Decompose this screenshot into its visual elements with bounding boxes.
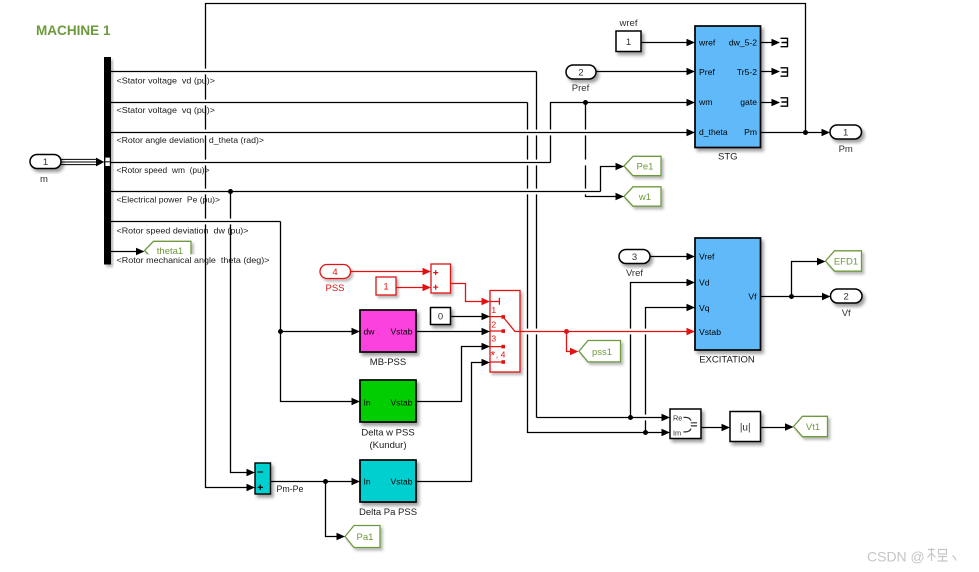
arrow switch ctrl in	[482, 298, 491, 305]
svg-text:<Rotor speed deviation dw (pu: <Rotor speed deviation dw (pu)>	[117, 225, 249, 235]
svg-text:|u|: |u|	[740, 423, 751, 434]
wire m bus	[61, 159, 97, 164]
svg-text:(Kundur): (Kundur)	[370, 440, 407, 451]
svg-text:2: 2	[578, 68, 583, 79]
constant 1 (red)	[376, 277, 396, 295]
svg-text:Pm: Pm	[744, 127, 757, 137]
svg-text:Pe1: Pe1	[637, 162, 654, 173]
wire dw branch to MB-PSS	[281, 331, 354, 333]
svg-text:3: 3	[491, 333, 496, 343]
svg-text:Vstab: Vstab	[391, 326, 413, 336]
arrow d_theta in	[687, 129, 696, 136]
goto tag theta1	[145, 241, 192, 259]
svg-text:4: 4	[332, 267, 337, 278]
wire switch out to Vstab	[520, 331, 689, 333]
arrow Vq in	[687, 304, 696, 311]
svg-text:0: 0	[438, 312, 443, 323]
wire vq branch to Vq	[646, 308, 689, 433]
wire crossover gaps	[204, 69, 646, 421]
svg-text:<Electrical power Pe (pu)>: <Electrical power Pe (pu)>	[117, 194, 221, 204]
wire theta row	[111, 251, 139, 253]
arrow Re in	[662, 414, 671, 421]
wire abs to Vt1	[761, 427, 787, 429]
wire MB-PSS out	[416, 331, 483, 333]
wire Pe drop to sum	[231, 192, 249, 473]
svg-text:<Stator voltage vq (pu)>: <Stator voltage vq (pu)>	[117, 105, 216, 115]
svg-text:d_theta: d_theta	[699, 127, 728, 137]
inport 1 m	[30, 155, 61, 186]
wire ReIm to abs	[701, 427, 723, 429]
wire vd branch to Vd	[631, 283, 689, 418]
wire branch to pss1	[567, 332, 574, 352]
svg-text:Vf: Vf	[842, 308, 851, 319]
wire Pm feedback loop	[206, 4, 806, 488]
svg-text:Pm-Pe: Pm-Pe	[277, 484, 304, 494]
arrow Delta w in	[352, 398, 361, 405]
svg-text:1: 1	[383, 282, 388, 293]
bus label dw	[115, 225, 249, 236]
wire red const to red sum	[396, 287, 426, 289]
svg-text:dw_5-2: dw_5-2	[729, 38, 757, 48]
svg-text:EFD1: EFD1	[834, 257, 858, 268]
svg-text:Vd: Vd	[699, 277, 710, 287]
outport 1 Pm	[830, 125, 862, 155]
svg-text:Vt1: Vt1	[806, 422, 820, 433]
svg-text:1: 1	[843, 128, 848, 139]
node dw branch	[278, 329, 283, 334]
arrowheads black	[96, 39, 831, 540]
wire wm row	[111, 162, 551, 164]
block Delta w PSS	[360, 380, 416, 451]
svg-text:<Rotor speed wm (pu)>: <Rotor speed wm (pu)>	[117, 165, 210, 175]
svg-text:, 4: , 4	[496, 349, 506, 359]
svg-text:Pm: Pm	[839, 144, 853, 155]
arrow Pref in	[687, 68, 696, 75]
svg-text:Vstab: Vstab	[391, 476, 413, 486]
constant 0	[431, 308, 451, 325]
arrow MB-PSS in	[352, 328, 361, 335]
arrow theta1 in	[136, 248, 145, 255]
bus selector bar	[104, 57, 111, 265]
svg-text:EXCITATION: EXCITATION	[699, 355, 755, 366]
goto tag Pa1	[345, 526, 380, 548]
arrow terminator1	[772, 39, 781, 46]
svg-text:wm: wm	[698, 97, 712, 107]
svg-text:In: In	[364, 397, 371, 407]
arrow red sum in1	[423, 268, 432, 275]
svg-text:Vref: Vref	[699, 252, 715, 262]
svg-text:Vref: Vref	[626, 268, 643, 279]
arrow Vd in	[687, 279, 696, 286]
node vq branch	[643, 430, 648, 435]
arrow switch p1	[482, 313, 491, 320]
goto tag w1	[624, 187, 661, 206]
svg-text:2: 2	[844, 292, 849, 303]
arrow switch p2	[482, 328, 491, 335]
svg-text:<Rotor mechanical angle theta: <Rotor mechanical angle theta (deg)>	[117, 255, 270, 265]
arrow Vf port	[822, 293, 831, 300]
svg-text:Delta Pa PSS: Delta Pa PSS	[359, 507, 417, 518]
goto tag Pe1	[624, 156, 661, 175]
block abs |u|	[730, 412, 761, 442]
wire Pref to STG	[596, 71, 689, 73]
wire vq drop and Im run	[528, 103, 664, 433]
wire d_theta row	[111, 132, 689, 134]
svg-text:Tr5-2: Tr5-2	[737, 67, 757, 77]
svg-text:Pref: Pref	[572, 83, 590, 94]
svg-text:1: 1	[43, 157, 48, 168]
inport 4 PSS (red)	[320, 265, 351, 295]
terminator T3	[781, 97, 788, 107]
svg-text:Im: Im	[673, 428, 681, 437]
svg-text:CSDN @: CSDN @	[867, 549, 925, 565]
wire Vf branch to EFD1	[792, 262, 819, 297]
inport 2 Pref	[566, 65, 596, 94]
bus label d_theta	[115, 134, 264, 145]
wire dw drop	[281, 222, 354, 402]
svg-text:w1: w1	[638, 192, 651, 203]
svg-text:gate: gate	[740, 97, 757, 107]
arrow abs in	[722, 424, 731, 431]
svg-text:Delta w PSS: Delta w PSS	[361, 427, 414, 438]
svg-text:MB-PSS: MB-PSS	[370, 357, 406, 368]
svg-text:Vf: Vf	[748, 291, 757, 301]
wire vq row	[111, 102, 528, 104]
arrow pss1 in	[570, 348, 579, 355]
wire Pe row	[111, 191, 601, 193]
block Real-Imag to Complex	[670, 409, 701, 439]
svg-text:2: 2	[491, 319, 496, 329]
svg-text:1: 1	[626, 37, 631, 48]
svg-text:PSS: PSS	[325, 283, 344, 294]
arrow m bus	[96, 158, 104, 167]
sum block red	[431, 264, 451, 293]
wire Pm out	[761, 132, 824, 134]
arrow Vt1 in	[785, 423, 794, 430]
block MB-PSS	[360, 310, 416, 368]
arrow Pm port	[822, 129, 831, 136]
wire Vf out	[761, 296, 824, 298]
svg-text:In: In	[364, 476, 371, 486]
bus label theta	[115, 254, 270, 265]
wire STG terminator stubs	[761, 43, 774, 103]
goto tag Vt1	[794, 416, 828, 436]
svg-text:MACHINE 1: MACHINE 1	[36, 22, 111, 38]
bus label vq	[115, 104, 216, 115]
wire sum out to Delta Pa	[271, 481, 354, 483]
arrow Vref in	[687, 253, 696, 260]
arrow switch p4	[482, 359, 491, 366]
arrow red sum in2	[423, 284, 432, 291]
arrow Pe1 in	[616, 163, 625, 170]
node Pa branch	[323, 479, 328, 484]
bus label vd	[115, 75, 216, 86]
constant wref	[616, 18, 641, 52]
block EXCITATION	[695, 238, 761, 366]
arrow Pa1 in	[337, 533, 346, 540]
svg-text:wref: wref	[698, 38, 716, 48]
wire branch to Pa1	[326, 482, 339, 537]
arrow EFD1 in	[817, 258, 826, 265]
watermark CSDN	[867, 548, 956, 565]
goto tag pss1	[579, 341, 621, 362]
wire Vref3 to EXCITATION	[650, 256, 689, 258]
wire vd row	[111, 71, 537, 73]
svg-text:Vstab: Vstab	[699, 327, 721, 337]
node Vf branch	[789, 294, 794, 299]
block STG	[695, 26, 761, 163]
wire dw row	[111, 221, 281, 223]
arrow Im in	[662, 429, 671, 436]
svg-text:<Stator voltage vd (pu)>: <Stator voltage vd (pu)>	[117, 75, 216, 85]
svg-text:wref: wref	[619, 18, 638, 29]
terminator T1	[781, 38, 788, 48]
sum block Pm-Pe	[255, 463, 303, 494]
svg-text:STG: STG	[718, 152, 738, 163]
arrow terminator2	[772, 68, 781, 75]
wire Pe branch to Pe1	[601, 167, 618, 192]
svg-text:Pa1: Pa1	[357, 532, 374, 543]
bus label wm	[115, 164, 210, 175]
arrow Delta Pa in	[352, 478, 361, 485]
arrow terminator3	[772, 99, 781, 106]
svg-text:<Rotor angle deviation d_thet: <Rotor angle deviation d_theta (rad)>	[117, 135, 265, 145]
bus label Pe	[115, 194, 221, 205]
wire vd Re run	[537, 417, 664, 419]
arrow sum minus in	[247, 469, 256, 476]
svg-text:3: 3	[632, 252, 637, 263]
goto tag EFD1	[826, 251, 862, 271]
arrow switch p3	[482, 343, 491, 350]
node Pe branch	[228, 189, 233, 194]
svg-text:Vstab: Vstab	[391, 397, 413, 407]
node vd branch	[628, 415, 633, 420]
wire const 0 to switch	[451, 316, 484, 318]
outport 2 Vf	[831, 289, 863, 319]
wire vd drop	[536, 72, 538, 418]
node wm branch	[583, 100, 588, 105]
arrow wm in	[687, 99, 696, 106]
svg-text:Pref: Pref	[699, 67, 715, 77]
svg-text:m: m	[40, 174, 48, 185]
wire PSS4 to red sum	[351, 271, 427, 273]
terminator T2	[781, 67, 788, 77]
block Delta Pa PSS	[359, 460, 417, 518]
svg-text:1: 1	[491, 305, 496, 315]
wire wref to STG	[641, 42, 689, 44]
wire red sum to switch ctrl	[451, 284, 486, 302]
node Pm branch	[803, 130, 808, 135]
node red Vstab branch	[564, 329, 569, 334]
svg-text:Re: Re	[673, 413, 682, 422]
inport 3 Vref	[619, 250, 650, 280]
arrow w1 in	[616, 193, 625, 200]
wire Delta w PSS out	[416, 347, 483, 402]
multiport switch (red)	[490, 291, 521, 373]
arrowheads red	[423, 268, 696, 355]
arrow sum plus in	[247, 484, 256, 491]
arrow wref in	[687, 39, 696, 46]
wire wm branch to w1	[586, 103, 618, 197]
arrow Vstab in	[687, 328, 696, 335]
svg-text:Vq: Vq	[699, 303, 710, 313]
wire Delta Pa PSS out	[416, 363, 483, 482]
svg-text:pss1: pss1	[592, 347, 612, 358]
wire wm elbow to STG	[551, 103, 689, 163]
wire horizontals (continuous over gaps)	[111, 72, 689, 418]
svg-text:dw: dw	[364, 326, 376, 336]
